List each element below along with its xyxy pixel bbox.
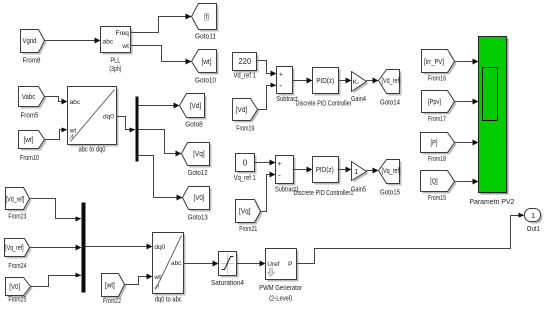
wire From17 to Parametri PV2 xyxy=(455,99,479,105)
wire Gain5 to Goto15 xyxy=(367,168,379,174)
svg-text:abc: abc xyxy=(70,99,81,106)
svg-text:[Vd_ref]: [Vd_ref] xyxy=(6,196,25,203)
svg-text:[wt]: [wt] xyxy=(105,282,115,289)
svg-text:[Q]: [Q] xyxy=(430,179,438,186)
svg-text:From25: From25 xyxy=(8,295,26,304)
gain block Gain5 (1) xyxy=(351,162,369,194)
wire From21 to Subtract1 minus xyxy=(261,172,276,212)
wire From18 to Parametri PV2 xyxy=(455,140,479,146)
wire PID1 to Gain5 xyxy=(338,167,352,173)
wire From8 to PLL abc xyxy=(45,38,101,44)
mux bar xyxy=(82,203,86,293)
svg-text:dq0: dq0 xyxy=(103,114,114,121)
svg-text:Uref: Uref xyxy=(267,261,279,268)
wire From10 to wt port xyxy=(45,128,68,140)
wire demux to Goto12 xyxy=(139,130,182,157)
svg-text:From18: From18 xyxy=(428,154,446,163)
wire mux to dq0 to abc xyxy=(86,244,153,250)
wire From25 to mux xyxy=(31,273,82,287)
wire 220 to Subtract plus xyxy=(258,61,277,77)
wire Saturation4 to PWM xyxy=(237,261,266,267)
from tag From19 [Vd] xyxy=(233,99,260,133)
wire From19 to Subtract minus xyxy=(258,83,277,110)
svg-text:From22: From22 xyxy=(103,296,121,305)
from tag From25 [V0] xyxy=(6,278,33,304)
svg-text:Vgrid: Vgrid xyxy=(23,38,37,45)
svg-text:From8: From8 xyxy=(23,56,41,65)
from tag From21 [Vq] xyxy=(236,200,263,234)
svg-text:From24: From24 xyxy=(8,261,26,270)
svg-text:From10: From10 xyxy=(20,153,39,162)
svg-text:[wt]: [wt] xyxy=(202,59,212,66)
svg-text:[Vd]: [Vd] xyxy=(190,103,202,110)
subtract block Subtract xyxy=(276,67,298,104)
svg-text:Goto12: Goto12 xyxy=(188,168,208,177)
svg-text:Gain4: Gain4 xyxy=(351,94,366,103)
gain block Gain4 (K-) xyxy=(351,72,369,104)
wire From23 to mux xyxy=(30,199,82,222)
wire From22 to wt port xyxy=(125,274,153,285)
from tag From10 [wt] xyxy=(19,131,47,163)
svg-text:[P]: [P] xyxy=(431,140,438,147)
svg-text:[Vq]: [Vq] xyxy=(193,151,205,158)
svg-text:dq0 to abc: dq0 to abc xyxy=(155,295,182,304)
svg-text:[Vq]: [Vq] xyxy=(239,209,251,216)
controller block Discrete PID Controller xyxy=(296,68,352,108)
svg-text:220: 220 xyxy=(239,57,252,66)
wire Subtract to PID row1 xyxy=(293,78,313,84)
from tag From15 [Q] xyxy=(421,171,457,202)
goto tag Goto15 [Vq_ref] xyxy=(379,160,402,197)
svg-text:wt: wt xyxy=(69,127,77,134)
svg-text:Goto8: Goto8 xyxy=(185,120,203,129)
constant block Vq_ref 1 (0) xyxy=(234,154,257,182)
wire dq0toabc to Saturation4 xyxy=(184,261,219,267)
svg-text:[V0]: [V0] xyxy=(194,195,205,202)
wire PID to Gain4 xyxy=(339,78,352,84)
svg-text:[V0]: [V0] xyxy=(9,284,20,291)
svg-text:abc: abc xyxy=(103,39,114,46)
svg-text:[Ppv]: [Ppv] xyxy=(428,99,441,106)
controller block Discrete PID Controller1 xyxy=(294,157,354,198)
svg-text:[wt]: [wt] xyxy=(24,137,34,144)
svg-text:From23: From23 xyxy=(8,211,26,220)
transform block abc to dq0 xyxy=(68,87,119,154)
svg-text:-: - xyxy=(279,81,282,90)
svg-text:1: 1 xyxy=(531,211,535,220)
svg-text:Vd_ref 1: Vd_ref 1 xyxy=(233,71,256,80)
svg-text:[Vd]: [Vd] xyxy=(236,107,248,114)
goto tag Goto13 [V0] xyxy=(183,187,212,222)
svg-text:Goto11: Goto11 xyxy=(195,31,216,40)
wire dq0 to demux xyxy=(117,117,136,133)
from tag From5 (Vabc) xyxy=(19,87,47,120)
svg-text:Goto13: Goto13 xyxy=(188,212,208,221)
wire Subtract1 to PID row2 xyxy=(293,167,313,173)
svg-text:0: 0 xyxy=(243,158,248,167)
svg-text:Goto15: Goto15 xyxy=(380,187,400,196)
svg-text:From17: From17 xyxy=(428,114,446,123)
svg-text:Discrete PID Controller1: Discrete PID Controller1 xyxy=(294,188,354,197)
svg-text:PID(z): PID(z) xyxy=(316,165,334,174)
from tag From18 [P] xyxy=(421,133,457,163)
svg-text:dq0: dq0 xyxy=(154,244,165,251)
svg-text:[f]: [f] xyxy=(204,14,209,21)
from tag From17 [Ppv] xyxy=(422,91,457,123)
svg-text:P: P xyxy=(288,261,292,268)
svg-text:wt: wt xyxy=(121,43,129,50)
subsystem Parametri PV2 (green scope panel) xyxy=(469,37,514,207)
svg-text:Vq_ref 1: Vq_ref 1 xyxy=(234,173,256,182)
svg-text:[Vq_ref]: [Vq_ref] xyxy=(5,245,24,252)
svg-text:abc to dq0: abc to dq0 xyxy=(79,145,106,154)
svg-text:PID(z): PID(z) xyxy=(316,76,334,85)
wire From16 to Parametri PV2 xyxy=(455,59,479,65)
transform block dq0 to abc xyxy=(153,233,186,304)
svg-text:From16: From16 xyxy=(428,74,446,83)
from tag From22 [wt] xyxy=(102,274,127,306)
wire demux to Goto8 xyxy=(139,103,180,109)
svg-text:Parametri PV2: Parametri PV2 xyxy=(469,197,514,206)
svg-text:Goto10: Goto10 xyxy=(195,75,216,84)
goto tag Goto11 [f] xyxy=(192,4,219,41)
svg-text:Freq: Freq xyxy=(116,30,130,37)
svg-text:Vabc: Vabc xyxy=(22,94,36,101)
wire From24 to mux xyxy=(30,245,82,251)
wire demux to Goto13 xyxy=(139,156,183,201)
svg-text:From21: From21 xyxy=(239,224,257,233)
svg-text:-: - xyxy=(278,171,281,180)
svg-text:PWM Generator: PWM Generator xyxy=(259,283,302,292)
wire 0 to Subtract1 plus xyxy=(255,160,276,166)
wire PWM P to Out1 xyxy=(297,213,525,264)
wire From5 to abc port xyxy=(45,97,68,105)
from tag From24 [Vq_ref] xyxy=(5,239,32,271)
svg-text:(2-Level): (2-Level) xyxy=(269,294,292,303)
subsystem PLL (3ph) xyxy=(101,27,133,73)
subtract block Subtract1 xyxy=(275,156,299,194)
svg-text:Saturation4: Saturation4 xyxy=(211,278,244,287)
wire From15 to Parametri PV2 xyxy=(455,179,479,185)
svg-text:K-: K- xyxy=(353,79,360,86)
svg-text:Discrete PID Controller: Discrete PID Controller xyxy=(296,98,352,107)
wire Gain4 to Goto14 xyxy=(367,78,379,84)
svg-text:+: + xyxy=(279,71,283,78)
svg-text:From19: From19 xyxy=(236,123,254,132)
svg-text:[Irr_PV]: [Irr_PV] xyxy=(424,59,444,66)
demux bar xyxy=(136,97,139,162)
pwm block PWM Generator (2-Level) xyxy=(259,249,302,303)
constant block Vd_ref 1 (220) xyxy=(233,53,259,80)
svg-text:+: + xyxy=(278,161,282,168)
svg-text:From5: From5 xyxy=(21,111,39,120)
svg-text:Gain5: Gain5 xyxy=(351,184,366,193)
svg-text:Goto14: Goto14 xyxy=(380,98,400,107)
svg-text:From15: From15 xyxy=(428,193,446,202)
goto tag Goto12 [Vq] xyxy=(182,143,212,178)
wire PLL Freq to Goto11 xyxy=(131,14,192,33)
goto tag Goto14 [Vd_ref] xyxy=(379,70,402,107)
svg-text:(3ph): (3ph) xyxy=(109,64,121,73)
svg-text:[Vd_ref]: [Vd_ref] xyxy=(382,78,401,85)
svg-text:[Vq_ref]: [Vq_ref] xyxy=(382,168,401,175)
svg-text:abc: abc xyxy=(171,260,182,267)
wire PLL wt to Goto10 xyxy=(131,46,192,65)
svg-text:wt: wt xyxy=(153,274,161,281)
svg-text:Out1: Out1 xyxy=(527,224,540,233)
goto tag Goto10 [wt] xyxy=(192,50,219,85)
from tag From16 [Irr_PV] xyxy=(422,50,457,83)
outport Out1 xyxy=(525,209,543,234)
svg-text:1: 1 xyxy=(354,169,358,176)
from tag From8 (Vgrid) xyxy=(21,30,47,65)
goto tag Goto8 [Vd] xyxy=(180,94,207,129)
saturation block Saturation4 xyxy=(211,252,244,287)
from tag From23 [Vd_ref] xyxy=(6,188,32,221)
